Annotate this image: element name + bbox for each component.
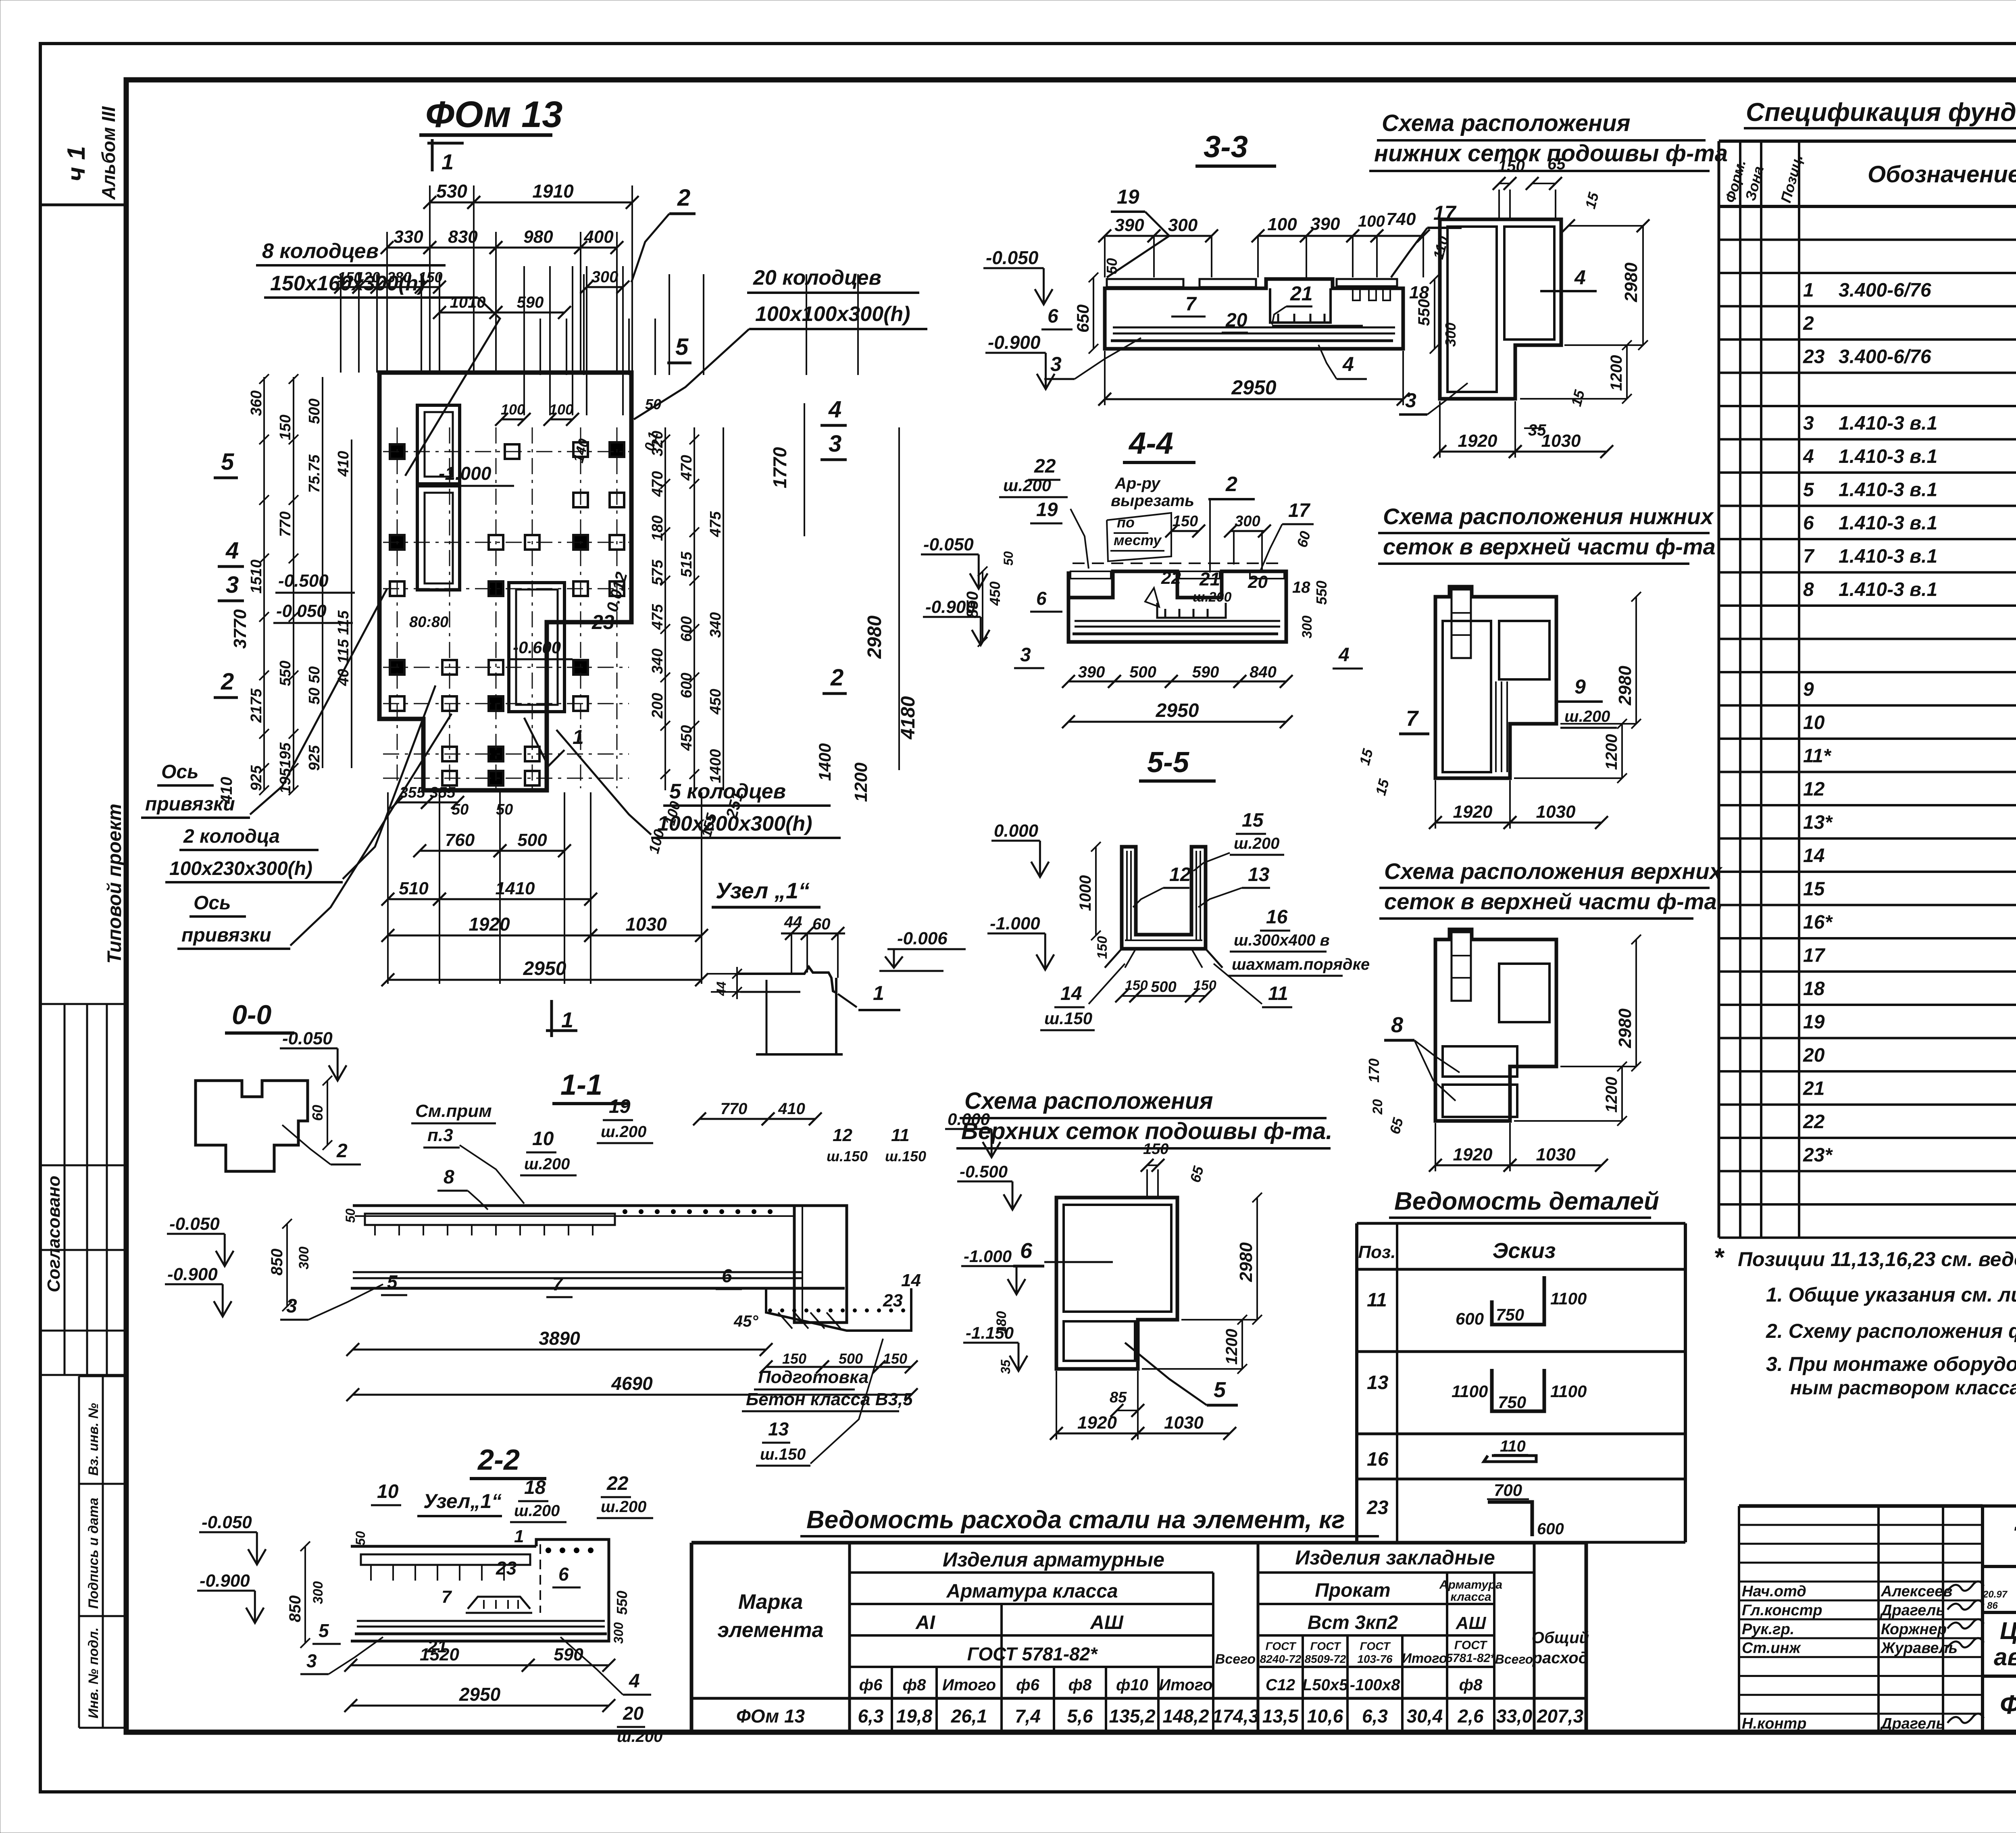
svg-text:ГОСТ 5781-82*: ГОСТ 5781-82*: [967, 1643, 1098, 1664]
svg-text:Драгель: Драгель: [1880, 1715, 1945, 1732]
svg-text:1.410-3 в.1: 1.410-3 в.1: [1839, 546, 1937, 567]
svg-text:Рук.гр.: Рук.гр.: [1742, 1621, 1794, 1638]
svg-text:-1.000: -1.000: [439, 463, 492, 484]
svg-text:ш.200: ш.200: [601, 1123, 646, 1141]
svg-text:Альбом III: Альбом III: [98, 106, 119, 200]
svg-text:Прокат: Прокат: [1315, 1580, 1390, 1601]
svg-text:21: 21: [1803, 1078, 1824, 1100]
svg-text:Бетон класса В3,5: Бетон класса В3,5: [746, 1389, 913, 1409]
svg-text:1770: 1770: [769, 447, 790, 488]
svg-text:2980: 2980: [1615, 666, 1635, 706]
svg-text:44: 44: [714, 981, 729, 996]
svg-text:30,4: 30,4: [1407, 1706, 1443, 1727]
svg-text:150: 150: [782, 1350, 806, 1367]
svg-text:300: 300: [1300, 616, 1315, 639]
svg-text:Фундамент ФОм 13: Фундамент ФОм 13: [2000, 1689, 2016, 1719]
svg-text:Н.контр: Н.контр: [1742, 1715, 1806, 1732]
svg-text:ным раствором класса В12,5: ным раствором класса В12,5 толщиной 50 м…: [1790, 1377, 2016, 1399]
svg-text:сеток в верхней части ф-та: сеток в верхней части ф-та: [1383, 534, 1716, 559]
svg-text:Ось: Ось: [161, 761, 199, 783]
svg-text:1100: 1100: [1452, 1382, 1488, 1401]
svg-text:13,5: 13,5: [1262, 1706, 1299, 1727]
svg-text:-0.900: -0.900: [167, 1264, 218, 1284]
svg-text:3: 3: [1803, 413, 1814, 434]
svg-text:16*: 16*: [1803, 912, 1833, 933]
svg-text:5: 5: [319, 1620, 329, 1641]
svg-text:Инв. № подл.: Инв. № подл.: [86, 1627, 101, 1718]
svg-text:200: 200: [649, 693, 666, 719]
svg-text:14: 14: [1060, 983, 1082, 1004]
svg-text:13*: 13*: [1803, 812, 1833, 833]
svg-text:600: 600: [1537, 1520, 1564, 1538]
svg-text:17: 17: [1288, 500, 1311, 521]
svg-text:15: 15: [1803, 879, 1825, 900]
svg-text:450: 450: [707, 689, 724, 714]
svg-text:6: 6: [1036, 588, 1047, 609]
svg-text:470: 470: [678, 455, 695, 481]
svg-text:1030: 1030: [1541, 431, 1581, 451]
svg-text:8 колодцев: 8 колодцев: [262, 240, 379, 263]
svg-text:1410: 1410: [496, 879, 535, 898]
svg-text:5: 5: [1214, 1378, 1226, 1402]
svg-text:ф6: ф6: [1016, 1676, 1039, 1694]
svg-text:6: 6: [1048, 306, 1058, 327]
svg-text:Нач.отд: Нач.отд: [1742, 1583, 1806, 1600]
svg-text:вырезать: вырезать: [1111, 492, 1194, 510]
svg-text:6: 6: [722, 1265, 732, 1286]
svg-text:Вз. инв. №: Вз. инв. №: [86, 1403, 101, 1476]
svg-text:22: 22: [1161, 568, 1181, 588]
svg-text:Ар-ру: Ар-ру: [1114, 475, 1161, 492]
svg-text:*: *: [1714, 1243, 1725, 1272]
svg-text:75.75: 75.75: [306, 454, 323, 493]
svg-text:Ось: Ось: [194, 892, 231, 914]
svg-text:2-2: 2-2: [477, 1444, 520, 1476]
svg-text:400: 400: [583, 227, 614, 247]
svg-text:Изделия арматурные: Изделия арматурные: [943, 1548, 1164, 1571]
svg-text:13: 13: [1367, 1372, 1389, 1393]
svg-text:7: 7: [1406, 706, 1419, 731]
svg-text:ш.200: ш.200: [1234, 835, 1279, 852]
svg-text:ш.150: ш.150: [885, 1148, 926, 1164]
svg-text:340: 340: [649, 648, 666, 674]
svg-text:355: 355: [430, 784, 456, 801]
svg-text:330: 330: [394, 227, 423, 247]
svg-text:6: 6: [558, 1564, 569, 1585]
svg-text:1400: 1400: [707, 749, 724, 783]
svg-text:515: 515: [678, 551, 695, 577]
svg-text:3: 3: [306, 1650, 317, 1671]
svg-text:Журавель: Журавель: [1880, 1640, 1958, 1657]
svg-text:174,3: 174,3: [1212, 1706, 1259, 1727]
svg-text:340: 340: [707, 612, 724, 637]
svg-text:150: 150: [1095, 936, 1110, 959]
svg-text:11: 11: [891, 1125, 910, 1145]
svg-text:1920: 1920: [1453, 1145, 1493, 1164]
svg-text:ГОСТ: ГОСТ: [1310, 1640, 1342, 1652]
svg-text:12: 12: [1169, 864, 1191, 885]
svg-text:Арматура: Арматура: [1439, 1578, 1502, 1591]
svg-text:Схема расположения нижних: Схема расположения нижних: [1383, 504, 1714, 529]
svg-text:10,6: 10,6: [1307, 1706, 1343, 1727]
svg-text:10: 10: [1803, 712, 1825, 733]
svg-text:5: 5: [1803, 479, 1814, 501]
svg-text:1920: 1920: [1458, 431, 1497, 451]
svg-text:3890: 3890: [539, 1328, 580, 1349]
svg-text:1: 1: [514, 1527, 524, 1546]
svg-text:740: 740: [1386, 209, 1416, 229]
svg-text:590: 590: [554, 1645, 583, 1664]
svg-text:1.410-3 в.1: 1.410-3 в.1: [1839, 446, 1937, 467]
svg-text:100: 100: [501, 401, 525, 418]
svg-text:475: 475: [649, 604, 666, 630]
svg-text:расход: расход: [1532, 1649, 1589, 1667]
svg-text:ш.200: ш.200: [1564, 708, 1610, 725]
svg-text:3. При монтаже оборудования: 3. При монтаже оборудования выполнить по…: [1766, 1353, 2016, 1375]
svg-text:8240-72: 8240-72: [1260, 1653, 1302, 1665]
svg-text:4: 4: [1342, 353, 1354, 375]
svg-text:20 колодцев: 20 колодцев: [753, 266, 881, 290]
svg-text:14: 14: [901, 1271, 921, 1290]
svg-text:Алексеев: Алексеев: [1881, 1583, 1952, 1600]
svg-text:23: 23: [591, 611, 614, 633]
svg-text:23: 23: [883, 1291, 903, 1310]
svg-text:ш.150: ш.150: [760, 1446, 806, 1463]
svg-text:-0.900: -0.900: [988, 332, 1041, 353]
svg-text:4: 4: [828, 396, 841, 423]
svg-text:980: 980: [523, 227, 553, 247]
svg-text:320: 320: [649, 431, 666, 456]
svg-text:470: 470: [649, 471, 666, 497]
svg-text:770: 770: [721, 1100, 748, 1118]
svg-text:700: 700: [1494, 1481, 1522, 1500]
svg-text:44: 44: [784, 913, 802, 931]
svg-text:1. Общие указания см. лист 9: 1. Общие указания см. лист 9.: [1766, 1283, 2016, 1306]
svg-text:-0.050: -0.050: [202, 1512, 252, 1532]
svg-text:600: 600: [678, 616, 695, 642]
svg-text:6: 6: [1020, 1239, 1033, 1263]
svg-text:500: 500: [1151, 979, 1176, 996]
svg-text:1100: 1100: [1550, 1289, 1587, 1308]
svg-text:-0.006: -0.006: [897, 929, 948, 948]
svg-text:500: 500: [1129, 663, 1156, 681]
svg-text:1030: 1030: [1164, 1413, 1204, 1433]
svg-text:13: 13: [768, 1418, 789, 1439]
svg-text:2980: 2980: [1236, 1242, 1256, 1282]
svg-text:ф8: ф8: [1068, 1676, 1092, 1694]
svg-text:207,3: 207,3: [1537, 1706, 1584, 1727]
svg-text:месту: месту: [1114, 532, 1162, 548]
svg-text:7: 7: [1803, 546, 1815, 567]
svg-text:ф6: ф6: [859, 1676, 883, 1694]
svg-text:4: 4: [225, 537, 239, 564]
svg-text:86: 86: [1987, 1600, 1998, 1611]
svg-text:600: 600: [678, 673, 695, 698]
svg-text:530: 530: [436, 181, 467, 202]
svg-text:ш.200: ш.200: [617, 1728, 662, 1746]
svg-text:сеток в верхней части ф-та.: сеток в верхней части ф-та.: [1384, 889, 1723, 914]
svg-text:1030: 1030: [1536, 802, 1576, 822]
svg-text:2,6: 2,6: [1458, 1706, 1484, 1727]
svg-text:135,2: 135,2: [1109, 1706, 1156, 1727]
svg-text:2: 2: [830, 664, 843, 691]
svg-text:2: 2: [221, 669, 234, 695]
svg-text:22: 22: [606, 1473, 629, 1494]
svg-text:20: 20: [1803, 1045, 1825, 1066]
svg-text:ФОм 13: ФОм 13: [425, 94, 562, 135]
svg-text:1: 1: [561, 1008, 573, 1032]
svg-text:3-3: 3-3: [1204, 130, 1248, 164]
svg-text:80:80: 80:80: [409, 614, 448, 631]
svg-text:3: 3: [1020, 644, 1031, 666]
svg-text:20: 20: [1248, 572, 1268, 592]
svg-text:Драгель: Драгель: [1880, 1602, 1945, 1619]
svg-text:1510: 1510: [248, 560, 265, 594]
svg-text:840: 840: [1250, 663, 1277, 681]
svg-text:300: 300: [1168, 215, 1198, 235]
svg-text:ГОСТ: ГОСТ: [1454, 1639, 1488, 1652]
svg-text:5781-82*: 5781-82*: [1446, 1652, 1495, 1665]
svg-text:103-76: 103-76: [1357, 1653, 1393, 1665]
svg-text:22: 22: [1034, 456, 1056, 477]
svg-text:Типовой проект: Типовой проект: [104, 804, 125, 964]
svg-text:1: 1: [573, 726, 584, 748]
svg-text:Вст 3кп2: Вст 3кп2: [1308, 1612, 1398, 1633]
svg-text:23: 23: [1803, 346, 1825, 368]
svg-text:-0.050: -0.050: [282, 1029, 333, 1048]
svg-text:2: 2: [1803, 313, 1814, 334]
svg-text:L50х5: L50х5: [1302, 1676, 1348, 1694]
svg-text:35: 35: [998, 1359, 1013, 1374]
svg-text:ш.200: ш.200: [1193, 589, 1231, 605]
svg-text:Узел„1“: Узел„1“: [423, 1490, 502, 1512]
svg-text:14: 14: [1803, 845, 1824, 867]
svg-text:-0.500: -0.500: [960, 1162, 1008, 1181]
svg-text:Всего: Всего: [1215, 1652, 1256, 1667]
svg-text:АI: АI: [915, 1612, 936, 1633]
svg-text:3: 3: [1050, 353, 1062, 375]
svg-text:6: 6: [1803, 512, 1814, 534]
svg-text:1.410-3 в.1: 1.410-3 в.1: [1839, 579, 1937, 600]
svg-text:500: 500: [839, 1350, 863, 1367]
svg-text:11: 11: [1268, 983, 1288, 1004]
svg-text:1.410-3 в.1: 1.410-3 в.1: [1839, 413, 1937, 434]
svg-text:Гл.констр: Гл.констр: [1742, 1602, 1822, 1619]
svg-text:18: 18: [524, 1477, 546, 1498]
svg-text:475: 475: [707, 511, 724, 537]
svg-text:150: 150: [277, 415, 294, 440]
svg-text:ГОСТ: ГОСТ: [1266, 1640, 1297, 1652]
svg-text:3770: 3770: [230, 609, 250, 649]
svg-text:4-4: 4-4: [1128, 426, 1173, 460]
svg-text:19,8: 19,8: [896, 1706, 933, 1727]
svg-text:180: 180: [994, 1311, 1009, 1334]
svg-text:-1.000: -1.000: [964, 1247, 1012, 1266]
svg-text:50: 50: [353, 1531, 368, 1546]
svg-text:850: 850: [286, 1596, 304, 1623]
svg-text:Коржнер: Коржнер: [1881, 1621, 1947, 1638]
svg-text:2980: 2980: [864, 615, 885, 659]
svg-text:4: 4: [1574, 266, 1586, 289]
svg-text:Схема расположения: Схема расположения: [964, 1088, 1213, 1114]
svg-text:3: 3: [226, 572, 239, 598]
svg-text:850: 850: [964, 592, 981, 619]
svg-text:5: 5: [387, 1271, 398, 1292]
svg-text:ч 1: ч 1: [62, 146, 90, 181]
svg-text:450: 450: [987, 581, 1003, 606]
svg-text:С12: С12: [1266, 1676, 1295, 1694]
svg-text:50: 50: [496, 801, 513, 818]
svg-text:150: 150: [1173, 513, 1198, 530]
svg-text:1-1: 1-1: [560, 1069, 602, 1101]
svg-text:850: 850: [268, 1249, 286, 1276]
svg-text:100: 100: [549, 401, 573, 418]
svg-text:1400: 1400: [815, 743, 834, 781]
svg-text:Итого: Итого: [942, 1676, 996, 1694]
svg-text:590: 590: [1192, 663, 1219, 681]
svg-text:элемента: элемента: [717, 1618, 823, 1642]
svg-text:ф10: ф10: [1116, 1676, 1148, 1694]
svg-text:750: 750: [1498, 1393, 1526, 1412]
svg-text:См.прим: См.прим: [415, 1101, 492, 1121]
svg-text:390: 390: [1078, 663, 1105, 681]
svg-text:2. Схему расположения фундам: 2. Схему расположения фундаментов см. ли…: [1766, 1320, 2016, 1342]
svg-text:привязки: привязки: [181, 925, 271, 946]
svg-text:Ведомость деталей: Ведомость деталей: [1394, 1187, 1659, 1215]
svg-text:-0.050: -0.050: [276, 601, 327, 621]
svg-text:1: 1: [873, 982, 884, 1004]
svg-text:8: 8: [444, 1166, 454, 1188]
svg-text:20: 20: [1370, 1099, 1385, 1115]
svg-text:7: 7: [1185, 294, 1197, 315]
svg-text:45°: 45°: [733, 1312, 758, 1330]
svg-text:-0.900: -0.900: [200, 1571, 250, 1591]
svg-text:150х160х300(h): 150х160х300(h): [270, 272, 425, 295]
svg-text:3.400-6/76: 3.400-6/76: [1839, 280, 1931, 301]
svg-text:1: 1: [442, 150, 454, 174]
svg-text:760: 760: [445, 830, 475, 850]
svg-text:100х230х300(h): 100х230х300(h): [169, 858, 312, 879]
svg-text:4180: 4180: [898, 696, 919, 739]
svg-text:100: 100: [1267, 215, 1297, 234]
svg-text:2950: 2950: [523, 958, 566, 979]
svg-text:60: 60: [812, 915, 831, 933]
svg-text:1910: 1910: [532, 181, 574, 202]
svg-text:50: 50: [1001, 551, 1016, 566]
svg-text:7,4: 7,4: [1015, 1706, 1041, 1727]
svg-text:Позиции 11,13,16,23 см. ведомо: Позиции 11,13,16,23 см. ведомость детале…: [1738, 1248, 2016, 1271]
svg-text:750: 750: [1496, 1305, 1524, 1324]
svg-text:Согласовано: Согласовано: [44, 1176, 64, 1292]
svg-text:-0.500: -0.500: [278, 571, 329, 591]
svg-text:1520: 1520: [420, 1645, 459, 1664]
svg-text:5: 5: [221, 449, 234, 475]
svg-text:150: 150: [1143, 1141, 1168, 1158]
svg-text:АШ: АШ: [1456, 1613, 1487, 1633]
svg-text:3: 3: [1405, 389, 1416, 412]
svg-text:19: 19: [1117, 185, 1139, 208]
svg-text:Спецификация фундамента ФОм 13: Спецификация фундамента ФОм 13: [1746, 98, 2016, 127]
svg-text:20.97: 20.97: [1983, 1589, 2008, 1600]
svg-text:7: 7: [552, 1273, 564, 1294]
svg-text:1200: 1200: [1223, 1329, 1241, 1365]
svg-text:33,0: 33,0: [1496, 1706, 1533, 1727]
svg-text:15: 15: [1242, 810, 1264, 831]
svg-text:Обозначение: Обозначение: [1868, 161, 2016, 187]
svg-text:4: 4: [1803, 446, 1814, 467]
svg-text:8509-72: 8509-72: [1305, 1653, 1346, 1665]
svg-text:150: 150: [1498, 157, 1525, 175]
svg-text:21: 21: [1290, 282, 1313, 305]
svg-text:13: 13: [1248, 864, 1270, 885]
svg-text:148,2: 148,2: [1162, 1706, 1209, 1727]
svg-text:3: 3: [829, 431, 841, 457]
svg-text:600: 600: [1456, 1309, 1484, 1328]
svg-text:2: 2: [336, 1140, 348, 1162]
svg-text:500: 500: [306, 398, 323, 424]
svg-text:шахмат.порядке: шахмат.порядке: [1232, 956, 1370, 973]
svg-text:Ст.инж: Ст.инж: [1742, 1640, 1801, 1657]
svg-text:550: 550: [277, 660, 294, 686]
svg-text:300: 300: [310, 1581, 326, 1604]
svg-text:1: 1: [1803, 280, 1814, 301]
svg-text:1920: 1920: [469, 914, 510, 935]
svg-text:300: 300: [296, 1247, 312, 1270]
svg-text:20: 20: [623, 1703, 644, 1724]
svg-text:10: 10: [532, 1128, 554, 1150]
svg-text:5-5: 5-5: [1147, 746, 1189, 779]
svg-text:АШ: АШ: [1090, 1612, 1124, 1633]
svg-text:7: 7: [442, 1587, 452, 1607]
svg-text:85: 85: [1110, 1389, 1127, 1406]
svg-text:ф8: ф8: [1459, 1676, 1483, 1694]
svg-text:0.000: 0.000: [994, 821, 1039, 841]
svg-text:1920: 1920: [1453, 802, 1493, 822]
svg-text:1.410-3 в.1: 1.410-3 в.1: [1839, 512, 1937, 534]
svg-text:100: 100: [1358, 212, 1385, 230]
svg-text:22: 22: [1803, 1111, 1825, 1133]
svg-text:ТП 405-7- 4.86: ТП 405-7- 4.86: [2012, 1520, 2016, 1558]
svg-text:1200: 1200: [851, 762, 871, 802]
svg-text:ш.150: ш.150: [1044, 1009, 1092, 1028]
svg-text:Марка: Марка: [738, 1590, 803, 1614]
svg-text:2950: 2950: [459, 1684, 501, 1705]
svg-text:100х200х300(h): 100х200х300(h): [657, 812, 812, 835]
svg-text:Схема расположения верхних: Схема расположения верхних: [1384, 858, 1723, 884]
svg-text:60: 60: [309, 1105, 326, 1121]
svg-text:550: 550: [1313, 581, 1330, 605]
svg-text:8: 8: [1803, 579, 1814, 600]
svg-text:ФОм 13: ФОм 13: [736, 1706, 805, 1727]
svg-text:5,6: 5,6: [1067, 1706, 1093, 1727]
svg-text:50: 50: [1104, 258, 1120, 274]
svg-text:1000: 1000: [1077, 875, 1094, 911]
svg-text:Эскиз: Эскиз: [1493, 1239, 1556, 1263]
svg-text:Ведомость расхода стали на эле: Ведомость расхода стали на элемент, кг: [806, 1506, 1345, 1534]
svg-text:2175: 2175: [248, 688, 265, 723]
svg-text:Изделия закладные: Изделия закладные: [1295, 1546, 1495, 1569]
svg-text:ш.200: ш.200: [514, 1502, 560, 1520]
svg-text:9: 9: [1574, 675, 1586, 698]
svg-text:550: 550: [614, 1591, 630, 1615]
svg-text:Итого: Итого: [1402, 1651, 1447, 1666]
svg-text:автомобильных шин.: автомобильных шин.: [1994, 1643, 2016, 1671]
svg-text:Арматура класса: Арматура класса: [946, 1581, 1118, 1602]
svg-text:привязки: привязки: [145, 794, 235, 815]
svg-text:2 колодца: 2 колодца: [183, 826, 280, 847]
svg-text:ш.300х400 в: ш.300х400 в: [1234, 931, 1330, 949]
svg-text:2980: 2980: [1621, 262, 1641, 302]
